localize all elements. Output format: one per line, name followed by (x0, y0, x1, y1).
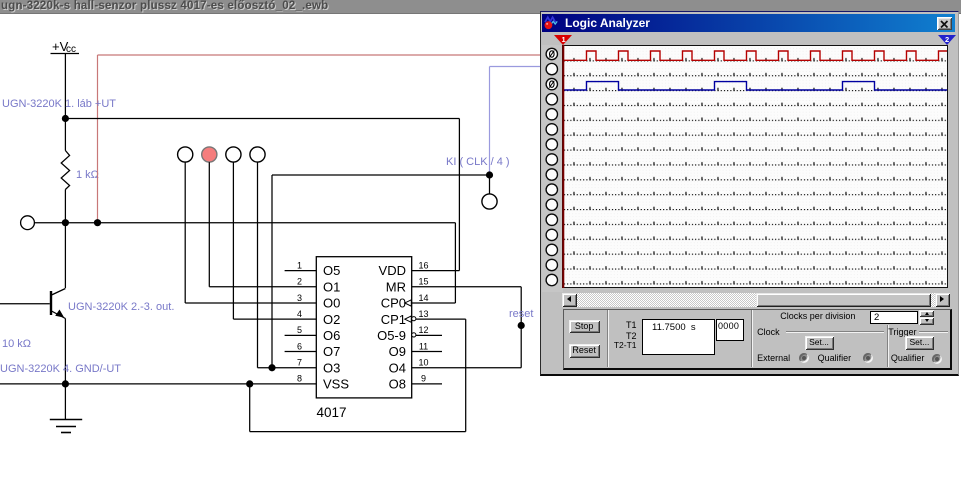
svg-text:O1: O1 (323, 279, 340, 294)
svg-text:10 kΩ: 10 kΩ (2, 338, 31, 350)
svg-text:1 kΩ: 1 kΩ (76, 169, 99, 181)
svg-text:O3: O3 (323, 360, 340, 375)
svg-text:O2: O2 (323, 312, 340, 327)
svg-text:O0: O0 (323, 296, 340, 311)
svg-text:O5: O5 (323, 263, 340, 278)
svg-text:1: 1 (297, 260, 302, 270)
svg-text:VSS: VSS (323, 377, 349, 392)
svg-text:UGN-3220K 4. GND/-UT: UGN-3220K 4. GND/-UT (0, 363, 121, 375)
svg-text:O9: O9 (389, 344, 406, 359)
svg-text:6: 6 (297, 341, 302, 351)
svg-text:16: 16 (418, 260, 428, 270)
svg-text:O8: O8 (389, 377, 406, 392)
svg-text:10: 10 (418, 358, 428, 368)
svg-text:14: 14 (418, 293, 428, 303)
svg-text:O6: O6 (323, 328, 340, 343)
svg-text:5: 5 (297, 325, 302, 335)
svg-text:O4: O4 (389, 360, 406, 375)
svg-text:9: 9 (421, 374, 426, 384)
svg-text:UGN-3220K 1. láb +UT: UGN-3220K 1. láb +UT (2, 98, 116, 110)
svg-text:4017: 4017 (317, 405, 347, 420)
svg-text:12: 12 (418, 325, 428, 335)
svg-text:VDD: VDD (379, 263, 406, 278)
svg-text:7: 7 (297, 358, 302, 368)
svg-text:11: 11 (419, 341, 428, 351)
svg-text:reset: reset (509, 308, 533, 320)
svg-text:4: 4 (297, 309, 302, 319)
svg-text:MR: MR (386, 279, 406, 294)
svg-text:2: 2 (297, 277, 302, 287)
svg-text:CP1: CP1 (381, 312, 406, 327)
svg-text:CP0: CP0 (381, 296, 406, 311)
svg-text:O7: O7 (323, 344, 340, 359)
svg-text:UGN-3220K 2.-3. out.: UGN-3220K 2.-3. out. (68, 301, 174, 313)
svg-text:13: 13 (418, 309, 428, 319)
svg-text:15: 15 (418, 277, 428, 287)
svg-text:3: 3 (297, 293, 302, 303)
svg-text:KI ( CLK / 4 ): KI ( CLK / 4 ) (446, 156, 510, 168)
svg-text:O5-9: O5-9 (377, 328, 406, 343)
svg-text:8: 8 (297, 374, 302, 384)
